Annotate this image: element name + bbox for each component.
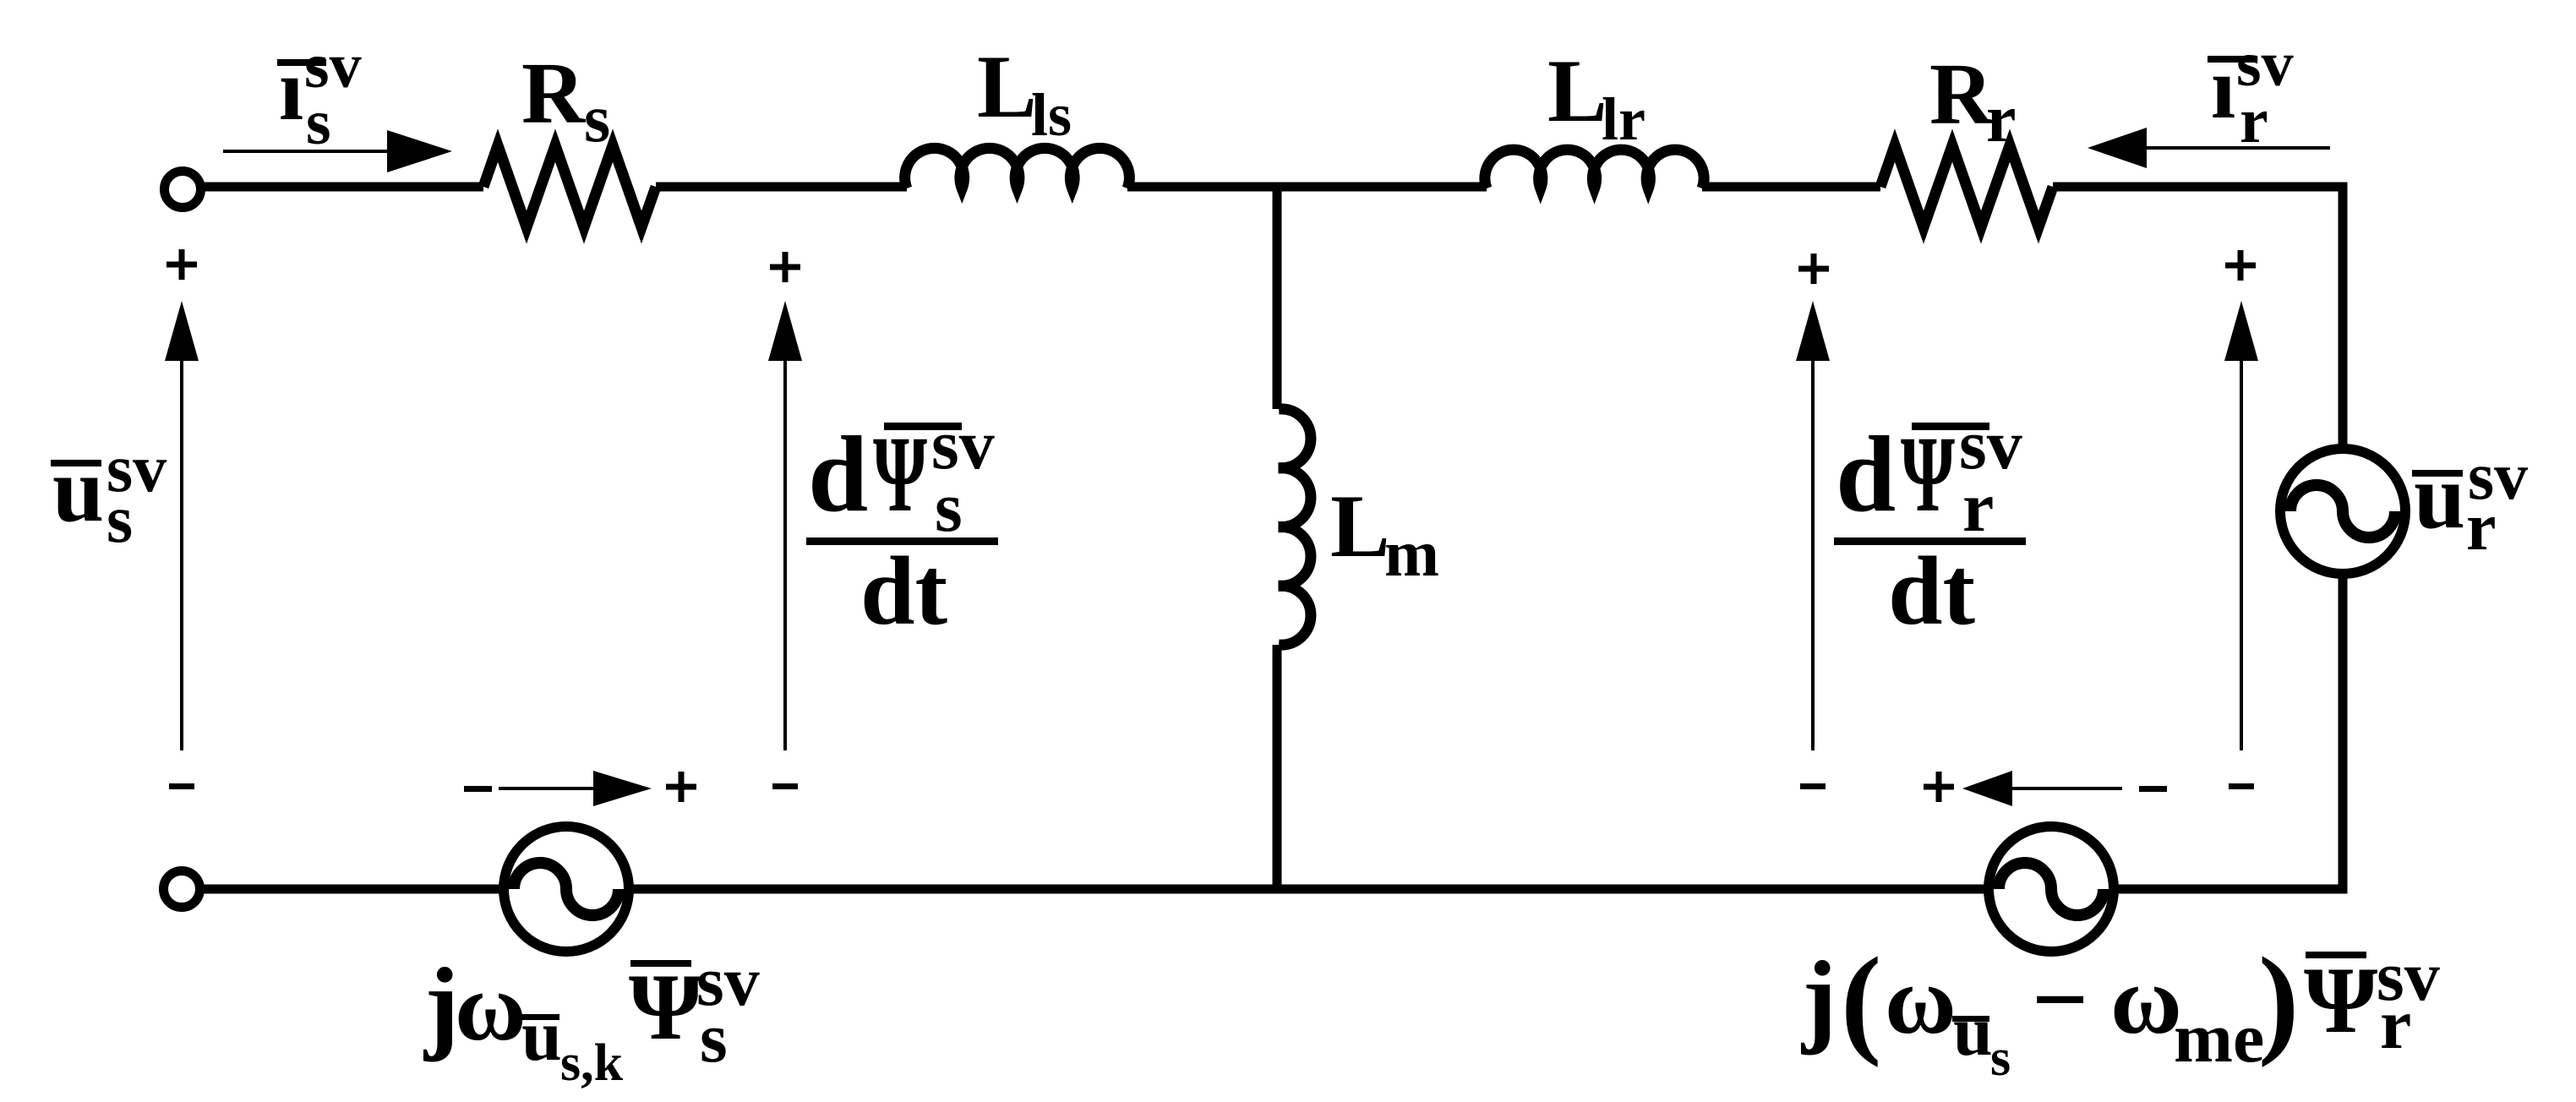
polarity marks stator EMF (minus arrow plus) [464, 771, 696, 806]
terminal: stator plus terminal [165, 172, 201, 208]
svg-text:r: r [2466, 490, 2497, 565]
svg-text:s: s [935, 468, 963, 547]
svg-text:dt: dt [1888, 537, 1976, 646]
voltage arrow u_s [165, 249, 199, 789]
wire: bottom rail left segment [199, 885, 505, 894]
svg-text:d: d [1836, 414, 1896, 534]
svg-text:−: − [2032, 944, 2088, 1055]
label i_r^sv [2208, 29, 2294, 156]
svg-text:s: s [106, 483, 133, 557]
wire: right branch below rotor source down to bottom rail [2114, 577, 2343, 889]
label j(omega_u_s - omega_me) Psi_r^sv [1800, 933, 2440, 1087]
node: centre branch junction / inductor L_m branch [1273, 187, 1282, 409]
svg-text:s,k: s,k [560, 1034, 624, 1092]
svg-text:j: j [423, 947, 459, 1062]
svg-text:L: L [977, 37, 1037, 136]
label L_m [1330, 477, 1439, 590]
svg-text:m: m [1384, 516, 1439, 590]
svg-text:ı: ı [279, 40, 303, 139]
svg-text:s: s [306, 87, 331, 158]
resistor R_s [483, 145, 656, 227]
svg-text:lr: lr [1602, 85, 1645, 153]
svg-text:Ψ: Ψ [1901, 414, 1955, 534]
svg-text:r: r [1962, 468, 1994, 547]
svg-text:Ψ: Ψ [629, 955, 702, 1060]
current arrow i_r [2088, 128, 2330, 168]
svg-text:Ψ: Ψ [2304, 948, 2377, 1053]
svg-text:L: L [1547, 41, 1607, 140]
svg-text:u: u [521, 995, 562, 1076]
svg-text:Ψ: Ψ [873, 414, 927, 534]
voltage arrow dPsi_r/dt [1796, 254, 1830, 789]
svg-text:r: r [2380, 985, 2411, 1064]
resistor R_r [1880, 145, 2053, 227]
label u_s^sv [51, 432, 166, 557]
label L_ls [977, 37, 1072, 149]
wire: top rail between L_lr and R_r [1702, 183, 1880, 192]
source EMF stator (j omega psi_s) [504, 826, 629, 952]
svg-text:L: L [1330, 477, 1390, 576]
svg-text:ω: ω [2110, 947, 2182, 1055]
svg-text:R: R [521, 45, 587, 142]
inductor L_m [1279, 409, 1311, 645]
source u_r (rotor voltage source) [2280, 449, 2405, 574]
terminal: stator minus terminal [164, 871, 200, 908]
svg-text:u: u [52, 438, 104, 541]
svg-text:ω: ω [455, 953, 527, 1061]
svg-text:r: r [2240, 85, 2268, 156]
svg-text:me: me [2174, 999, 2264, 1077]
wire: top rail right segment with corner down to rotor source [2053, 187, 2343, 445]
svg-text:(: ( [1841, 933, 1881, 1068]
svg-text:dt: dt [860, 537, 948, 646]
label R_r [1929, 46, 2017, 156]
wire: centre branch below L_m [1273, 645, 1282, 889]
svg-text:): ) [2258, 933, 2299, 1068]
label L_lr [1547, 41, 1645, 153]
svg-text:R: R [1929, 46, 1995, 143]
svg-text:u: u [1953, 992, 1993, 1071]
svg-text:ω: ω [1885, 947, 1957, 1055]
polarity marks rotor EMF (plus arrow minus) [1924, 771, 2167, 806]
svg-text:s: s [1990, 1029, 2011, 1087]
label u_r^sv [2412, 439, 2528, 565]
svg-text:r: r [1986, 82, 2017, 156]
voltage arrow dPsi_s/dt [768, 252, 802, 789]
voltage arrow u_r polarity [2224, 250, 2258, 789]
svg-text:d: d [808, 414, 868, 534]
wire: top rail between L_ls and L_lr [1127, 183, 1487, 192]
wire: top rail left segment [200, 183, 483, 192]
label fraction dPsi_r^sv/dt [1834, 406, 2026, 646]
svg-text:j: j [1800, 940, 1836, 1056]
source EMF rotor (j(omega-omega_me) psi_r) [1989, 826, 2114, 952]
svg-text:s: s [584, 82, 610, 156]
label R_s [521, 45, 610, 156]
svg-text:s: s [700, 999, 728, 1077]
current arrow i_s [223, 130, 452, 172]
svg-text:u: u [2414, 445, 2465, 548]
label fraction dPsi_s^sv/dt [806, 406, 998, 646]
svg-text:ı: ı [2211, 38, 2235, 137]
wire: bottom rail middle segment [629, 885, 1989, 894]
wire: top rail between R_s and L_ls [656, 183, 907, 192]
svg-text:ls: ls [1031, 81, 1072, 149]
label j omega_u_s,k Psi_s^sv [423, 942, 760, 1092]
label i_s^sv [277, 30, 362, 158]
inductor L_ls [905, 148, 1130, 188]
inductor L_lr [1485, 150, 1704, 188]
